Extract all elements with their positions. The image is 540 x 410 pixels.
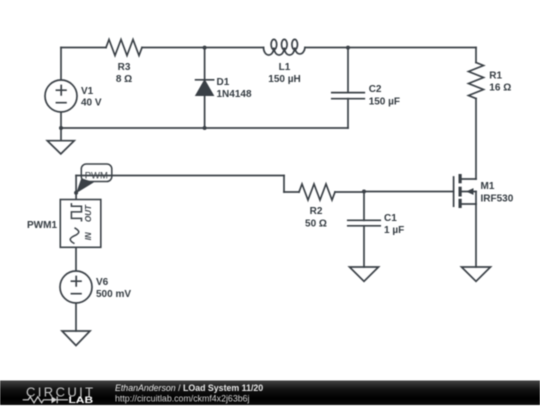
svg-text:OUT: OUT	[84, 204, 93, 222]
svg-text:R2: R2	[310, 206, 323, 217]
svg-text:EthanAnderson / LOad System 11: EthanAnderson / LOad System 11/20	[115, 383, 263, 393]
svg-text:C2: C2	[369, 84, 382, 95]
svg-text:L1: L1	[279, 62, 291, 73]
svg-text:1N4148: 1N4148	[217, 89, 252, 100]
svg-text:http://circuitlab.com/ckmf4x2j: http://circuitlab.com/ckmf4x2j63b6j	[115, 394, 249, 404]
svg-text:M1: M1	[481, 181, 495, 192]
svg-text:C1: C1	[384, 213, 397, 224]
svg-text:LAB: LAB	[69, 396, 94, 405]
svg-text:PWM: PWM	[85, 170, 108, 181]
svg-text:1 µF: 1 µF	[384, 225, 404, 236]
svg-text:40 V: 40 V	[81, 98, 102, 109]
svg-text:150 µF: 150 µF	[369, 97, 400, 108]
svg-text:R3: R3	[118, 62, 131, 73]
svg-text:8 Ω: 8 Ω	[116, 74, 132, 85]
svg-text:50 Ω: 50 Ω	[305, 219, 327, 230]
svg-text:IN: IN	[84, 232, 93, 240]
svg-text:150 µH: 150 µH	[268, 74, 300, 85]
svg-text:V1: V1	[81, 86, 94, 97]
svg-text:500 mV: 500 mV	[96, 289, 131, 300]
svg-text:IRF530: IRF530	[481, 193, 514, 204]
svg-text:D1: D1	[217, 77, 230, 88]
svg-text:PWM1: PWM1	[27, 220, 57, 231]
svg-text:V6: V6	[96, 277, 109, 288]
svg-text:R1: R1	[489, 71, 502, 82]
svg-text:16 Ω: 16 Ω	[489, 82, 511, 93]
